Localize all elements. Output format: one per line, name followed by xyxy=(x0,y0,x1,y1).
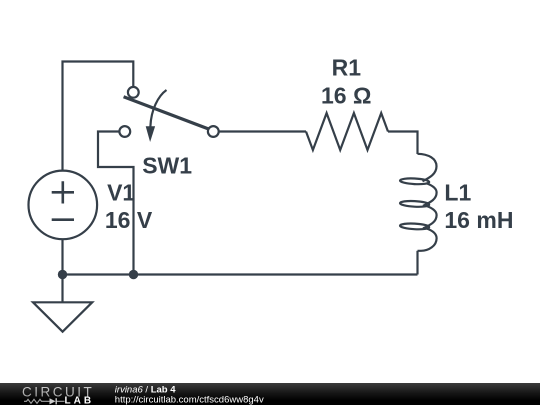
ground xyxy=(33,275,92,332)
svg-text:R1: R1 xyxy=(332,55,362,81)
wire xyxy=(388,132,418,155)
CircuitLab logo xyxy=(22,385,94,405)
wire xyxy=(61,240,63,275)
switch SW1 xyxy=(119,87,218,142)
wire xyxy=(63,62,134,172)
resistor R1 xyxy=(306,113,388,150)
svg-text:SW1: SW1 xyxy=(142,153,192,179)
svg-text:16 Ω: 16 Ω xyxy=(321,82,371,108)
svg-text:16 mH: 16 mH xyxy=(444,207,513,233)
voltage source V1 xyxy=(29,171,98,240)
wire xyxy=(220,130,307,132)
svg-text:L1: L1 xyxy=(444,180,471,206)
wire xyxy=(416,251,418,275)
svg-text:http://circuitlab.com/ctfscd6w: http://circuitlab.com/ctfscd6ww8g4v xyxy=(115,394,264,405)
footer text irvina6 / Lab 4 xyxy=(115,385,264,405)
junction dot node A xyxy=(58,270,67,279)
svg-text:16 V: 16 V xyxy=(105,207,153,233)
wire xyxy=(98,132,134,275)
svg-text:V1: V1 xyxy=(107,180,135,206)
footer bar xyxy=(0,383,540,405)
junction dot node B xyxy=(129,270,138,279)
svg-text:LAB: LAB xyxy=(65,396,95,405)
wire xyxy=(63,273,418,275)
inductor L1 xyxy=(400,154,437,251)
